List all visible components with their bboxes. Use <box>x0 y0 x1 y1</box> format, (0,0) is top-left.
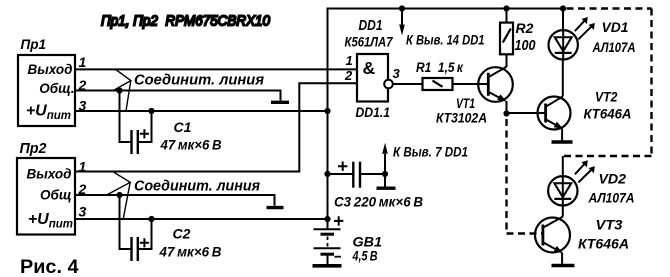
junction: VT1 emitter / VT2 base node <box>503 110 509 116</box>
svg-text:DD1.1: DD1.1 <box>356 105 391 120</box>
wire: bus to R2 top <box>506 9 508 23</box>
svg-text:R2: R2 <box>516 20 534 36</box>
junction: bus to R2 <box>503 5 509 11</box>
wire: Pr2 pin2 common <box>76 195 275 206</box>
wire: R1 to VT1 base <box>453 83 488 85</box>
svg-text:АЛ107А: АЛ107А <box>588 190 635 206</box>
wire: VT1 emitter down to node <box>506 101 508 114</box>
svg-text:КТ3102А: КТ3102А <box>436 110 487 126</box>
logic gate DD1.1 (K561LA7) body <box>357 54 388 102</box>
ground: chassis bar on Pr1 common <box>271 101 289 104</box>
svg-text:КТ646А: КТ646А <box>578 236 629 252</box>
svg-text:1: 1 <box>346 53 353 68</box>
junction: bus to C3 positive lead <box>324 171 330 177</box>
wire: VT2 collector up to VD1 cathode <box>562 60 564 97</box>
junction: C1 to common wire <box>116 87 122 93</box>
svg-text:3: 3 <box>79 204 87 220</box>
wire: Pr2 pin3 +U to supply bus <box>76 218 328 220</box>
polarity minus sign GB1 <box>335 256 342 258</box>
junction: C2 to +U wire <box>148 216 154 222</box>
capacitor C2 plates <box>130 237 132 261</box>
receiver module Pr2 (box) <box>17 158 75 235</box>
svg-text:1: 1 <box>79 54 87 70</box>
battery GB1 cell 1 positive plate <box>314 228 341 230</box>
capacitor C1 plates <box>130 130 132 154</box>
svg-text:К Выв. 7 DD1: К Выв. 7 DD1 <box>393 144 468 160</box>
svg-text:&: & <box>363 58 376 78</box>
polarity plus sign C3 <box>338 162 347 171</box>
arrow: to pin 14 of DD1 <box>401 9 403 26</box>
svg-text:Выход: Выход <box>26 167 71 182</box>
battery GB1 cell 2 negative plate <box>321 253 335 256</box>
polarity plus sign GB1 <box>334 216 343 225</box>
wire: Pr2 pin1 output up to DD1.1 input 2 <box>76 83 358 171</box>
svg-text:47 мк×6 В: 47 мк×6 В <box>160 137 222 153</box>
wire: C1 left lead <box>120 91 132 143</box>
svg-text:Выход: Выход <box>27 62 72 77</box>
svg-text:С3 220 мк×6 В: С3 220 мк×6 В <box>334 194 423 210</box>
wire: bus to battery positive plate <box>327 219 329 228</box>
svg-text:VT2: VT2 <box>595 89 618 105</box>
LED VD1 emission arrows <box>575 17 595 39</box>
transistor VT2 KT646A <box>538 97 571 130</box>
wire: node to VT2 base <box>507 112 546 114</box>
svg-text:VD2: VD2 <box>599 171 627 187</box>
svg-text:Пр2: Пр2 <box>20 141 47 157</box>
svg-text:Пр1, Пр2 RPM675CBRX10: Пр1, Пр2 RPM675CBRX10 <box>101 13 271 30</box>
svg-text:Общ.: Общ. <box>39 81 74 96</box>
svg-text:К Выв. 14 DD1: К Выв. 14 DD1 <box>406 32 485 48</box>
wire: C2 right lead <box>138 219 152 249</box>
wire: VT3 emitter to ground <box>561 253 563 264</box>
junction: C3 / pin7 / ground node <box>382 171 388 177</box>
junction: C1 to +U wire <box>148 108 154 114</box>
svg-text:С2: С2 <box>173 226 191 242</box>
wire: C2 left lead <box>120 195 132 249</box>
svg-text:Соединит. линия: Соединит. линия <box>134 179 260 195</box>
svg-text:Рис. 4: Рис. 4 <box>20 257 79 277</box>
svg-text:R1 1,5 к: R1 1,5 к <box>416 60 464 75</box>
svg-text:47 мк×6 В: 47 мк×6 В <box>159 244 222 260</box>
svg-text:КТ646А: КТ646А <box>584 106 632 122</box>
svg-text:Соединит. линия: Соединит. линия <box>134 73 264 89</box>
LED VD1 AL107A <box>549 30 578 59</box>
wire: VT2 emitter to ground <box>561 129 563 141</box>
wire (dashed remote line) bus to VD2 anode <box>563 9 652 157</box>
capacitor C3 plates <box>352 162 354 188</box>
LED VD2 emission arrows <box>575 160 595 182</box>
wire: Pr1 pin1 output to DD1.1 input 1 <box>76 68 358 70</box>
wire: node to chassis <box>384 174 386 187</box>
svg-text:К561ЛА7: К561ЛА7 <box>345 34 394 50</box>
transistor VT3 KT646A <box>535 218 570 253</box>
battery GB1 cell 1 negative plate <box>321 233 335 236</box>
battery GB1 cell 2 positive plate <box>314 247 341 249</box>
junction: bus to VD1 anode / remote dashed line <box>560 5 566 11</box>
receiver module Pr1 (box) <box>18 55 75 126</box>
resistor R2 <box>500 23 513 55</box>
transistor VT1 KT3102A <box>478 67 513 102</box>
wire: battery negative to chassis <box>327 255 329 264</box>
ground: chassis bar on Pr2 common <box>267 206 284 209</box>
arrow: to pin 7 of DD1 <box>384 154 386 173</box>
wire: VD2 cathode to VT3 collector <box>562 206 564 217</box>
junction: Pr1 +U to bus <box>324 108 330 114</box>
wire: bus to C3 left plate <box>328 173 354 175</box>
wire: +4.5V supply bus (top rail and vertical riser) <box>328 9 564 220</box>
wire: gate output to R1 <box>393 83 423 85</box>
resistor R1 <box>423 78 453 90</box>
svg-text:4,5 В: 4,5 В <box>352 248 378 264</box>
wire (dashed remote line) node to VT3 base <box>507 119 543 234</box>
ground: chassis bar VT3 emitter <box>552 264 575 267</box>
svg-text:DD1: DD1 <box>359 18 383 34</box>
LED VD2 AL107A <box>548 176 577 205</box>
wire: Pr1 pin2 common <box>76 91 281 101</box>
battery GB1 omitted-cells dashed link <box>327 237 329 248</box>
svg-text:2: 2 <box>344 68 353 83</box>
ground: chassis bar at battery negative <box>313 264 342 268</box>
twisted-line leader mark (Pr2 cable) <box>107 172 131 220</box>
polarity plus sign C1 <box>140 129 149 138</box>
svg-text:АЛ107А: АЛ107А <box>592 39 636 55</box>
ground: chassis bar VT2 emitter <box>552 140 573 143</box>
svg-text:VT3: VT3 <box>596 217 623 233</box>
junction: C2 to common wire <box>116 192 122 198</box>
svg-text:3: 3 <box>393 66 401 81</box>
wire: C1 right lead <box>138 111 152 142</box>
polarity plus sign C2 <box>140 238 149 247</box>
svg-text:Пр1: Пр1 <box>21 36 47 52</box>
svg-text:100: 100 <box>515 38 536 54</box>
svg-text:Общ: Общ <box>40 188 71 203</box>
twisted-line leader mark (Pr1 cable) <box>113 69 130 111</box>
junction: battery positive to bus <box>324 216 330 222</box>
svg-text:С1: С1 <box>174 119 192 135</box>
gate DD1.1 output inversion circle <box>384 80 393 89</box>
wire: Pr1 pin3 +U to supply bus <box>76 110 328 112</box>
junction: bus to DD1 pin 14 feed <box>399 5 405 11</box>
ground: chassis bar at C3 node <box>377 186 396 189</box>
wire: bus to VD1 anode <box>562 9 564 31</box>
wire: R2 bottom to VT1 collector <box>506 54 508 67</box>
wire: dashed line corner to VD2 anode <box>562 156 564 176</box>
wire: C3 right plate to ground node <box>360 173 385 175</box>
svg-text:VD1: VD1 <box>602 19 629 35</box>
